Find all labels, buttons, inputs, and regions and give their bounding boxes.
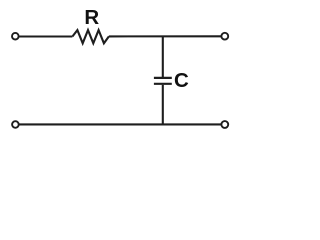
terminal top-left (12, 33, 19, 40)
svg-text:R: R (84, 6, 99, 29)
wire bottom rail (19, 123, 221, 125)
capacitor C bottom plate (154, 83, 172, 85)
terminal bottom-right (221, 121, 228, 128)
capacitor C top plate (154, 77, 172, 79)
wire top-left segment (19, 35, 73, 37)
svg-text:C: C (174, 69, 189, 92)
RC low-pass filter schematic (0, 0, 248, 141)
wire capacitor branch lower (162, 85, 164, 125)
wire capacitor branch upper (162, 36, 164, 77)
resistor R (72, 30, 109, 43)
terminal bottom-left (12, 121, 19, 128)
terminal top-right (221, 33, 228, 40)
wire top-right segment (109, 35, 221, 37)
